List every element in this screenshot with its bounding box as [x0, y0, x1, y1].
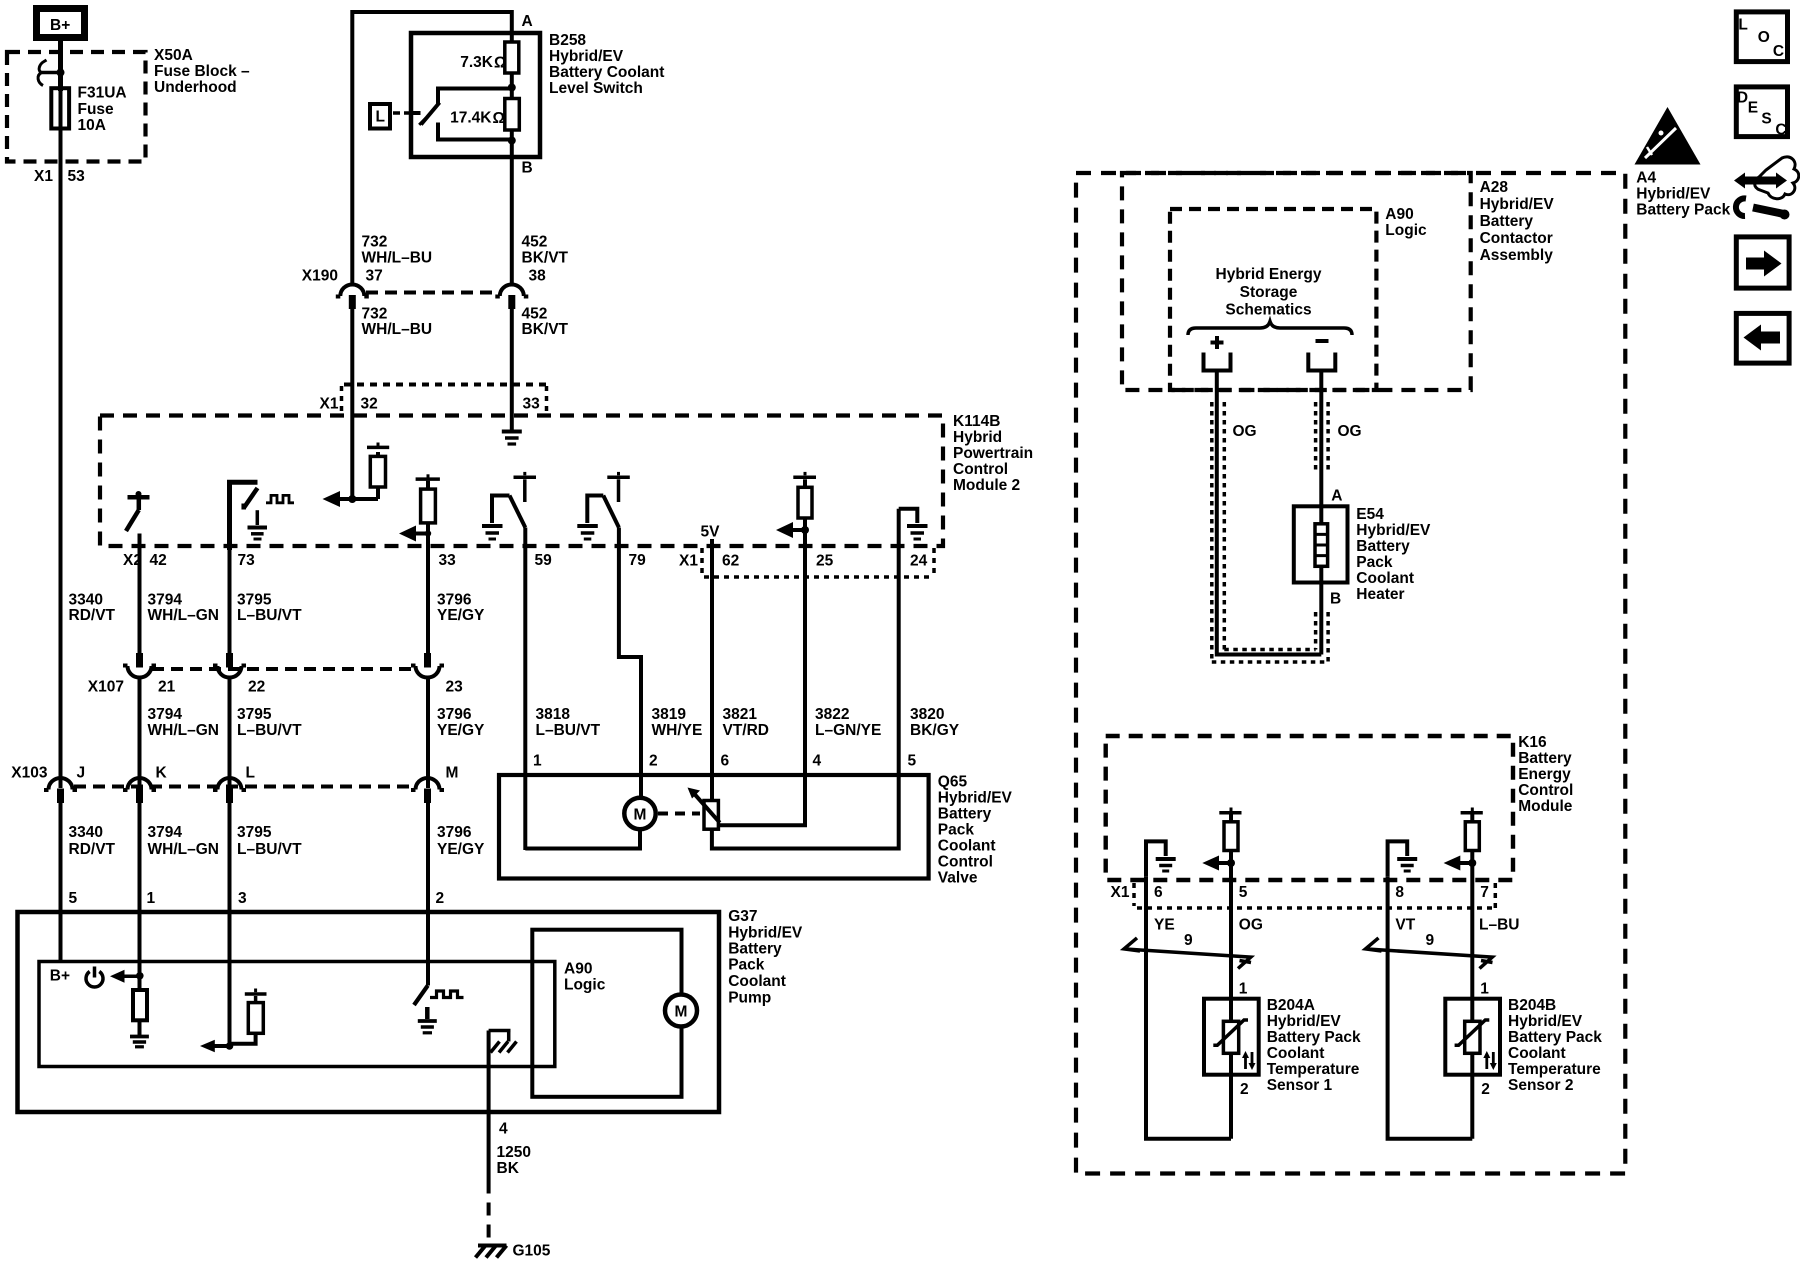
label X50A Fuse Block - Underhood — [154, 47, 250, 96]
svg-text:X1: X1 — [679, 553, 698, 570]
twisted pair symbol left with label 9 — [1124, 932, 1251, 969]
arrows up down sensor 2 — [1483, 1051, 1497, 1070]
dashed wire to G105 — [487, 1181, 491, 1242]
pin label 2 sensor 2 — [1481, 1081, 1490, 1098]
wire pin 33 to X107 pin 23 — [426, 534, 430, 654]
wire label 3821 VT/RD — [723, 706, 770, 739]
wire label 732 WH/L-BU below X190 — [362, 306, 433, 339]
wire K16 pin 6 YE to sensor 1 pin 2 — [1146, 877, 1231, 1139]
pull-up resistor at K16 pin 5 — [1219, 808, 1241, 864]
node B+ battery positive — [37, 9, 85, 38]
svg-text:RD/VT: RD/VT — [69, 841, 116, 858]
node L float input box — [370, 104, 390, 129]
label A28 Hybrid/EV Battery Contactor Assembly — [1480, 179, 1555, 264]
svg-text:Energy: Energy — [1518, 766, 1571, 783]
svg-text:Storage: Storage — [1240, 284, 1298, 301]
svg-text:7: 7 — [1480, 884, 1489, 901]
svg-text:17.4K: 17.4K — [450, 110, 492, 127]
svg-text:Underhood: Underhood — [154, 79, 237, 96]
svg-text:X50A: X50A — [154, 47, 193, 64]
connector X107 pin 22 — [213, 653, 246, 678]
svg-text:6: 6 — [1154, 884, 1163, 901]
svg-text:22: 22 — [248, 679, 265, 696]
svg-text:A90: A90 — [564, 961, 592, 978]
wire label 3796 YE/GY upper — [437, 592, 485, 625]
ground at pin 24 — [907, 526, 928, 539]
logic block A90 in G37 — [39, 962, 555, 1067]
svg-text:23: 23 — [446, 679, 464, 696]
svg-text:37: 37 — [366, 268, 383, 285]
svg-text:B258: B258 — [549, 32, 586, 49]
svg-text:WH/L–BU: WH/L–BU — [362, 321, 433, 338]
svg-text:Hybrid Energy: Hybrid Energy — [1216, 266, 1322, 283]
arrow left on pin 3 wire — [200, 1040, 233, 1053]
connector X103 pin J — [44, 778, 77, 803]
svg-text:24: 24 — [910, 553, 928, 570]
svg-text:Ω: Ω — [493, 110, 505, 127]
svg-text:3795: 3795 — [237, 824, 272, 841]
svg-text:21: 21 — [158, 679, 176, 696]
svg-text:5V: 5V — [701, 524, 721, 541]
connector X190 pin 38 — [495, 285, 528, 310]
svg-text:Level Switch: Level Switch — [549, 80, 643, 97]
svg-text:M: M — [675, 1004, 688, 1021]
svg-text:33: 33 — [523, 396, 541, 413]
ground at pin 73 driver — [248, 510, 268, 539]
label A90 Logic in G37 — [564, 961, 606, 994]
svg-text:Coolant: Coolant — [728, 973, 786, 990]
svg-text:42: 42 — [150, 552, 167, 569]
wire K16 pin 7 L-BU to sensor 2 pin 1 — [1470, 863, 1474, 1139]
svg-text:452: 452 — [522, 234, 548, 251]
wire label 3794 WH/L-GN lower — [148, 706, 219, 739]
svg-text:38: 38 — [529, 268, 547, 285]
motor loop in G37 — [532, 930, 681, 1097]
wire pin 59 to Q65 pin 1 — [523, 528, 527, 851]
svg-text:L: L — [1738, 17, 1747, 34]
svg-text:A90: A90 — [1385, 206, 1413, 223]
svg-text:3821: 3821 — [723, 706, 758, 723]
wire 3796 X103 to G37 pin 2 — [426, 802, 430, 986]
connector label X190 37 38 — [302, 268, 546, 285]
svg-text:Hybrid/EV: Hybrid/EV — [1508, 1013, 1583, 1030]
svg-text:L–BU/VT: L–BU/VT — [237, 722, 302, 739]
pull-up resistor on circuit 732 — [367, 443, 389, 500]
connector X107 pin 21 — [123, 653, 156, 678]
wire OG positive to heater B loop — [1217, 373, 1322, 655]
module K114B dashed box — [100, 416, 943, 547]
label E54 Hybrid/EV Battery Pack Coolant Heater — [1356, 506, 1431, 603]
svg-text:732: 732 — [362, 306, 388, 323]
connector X1 strip below K16 — [1134, 883, 1495, 908]
svg-text:2: 2 — [1240, 1081, 1249, 1098]
label B258 Hybrid/EV Battery Coolant Level Switch — [549, 32, 664, 97]
wire 3796 X107 to X103 — [426, 677, 430, 788]
svg-text:B: B — [522, 160, 533, 177]
wire 3795 X107 to X103 — [228, 677, 232, 788]
warning triangle A4 — [1635, 107, 1701, 165]
wire label 452 BK/VT above X190 — [522, 234, 569, 267]
wire label 3794 WH/L-GN upper — [148, 592, 219, 625]
contactor assembly A28 dashed box — [1122, 173, 1471, 390]
wire label OG left — [1233, 423, 1257, 440]
svg-text:X1: X1 — [1111, 884, 1130, 901]
svg-text:OG: OG — [1239, 917, 1263, 934]
wire label 452 BK/VT below X190 — [522, 306, 569, 339]
svg-text:9: 9 — [1184, 932, 1193, 949]
switch arm on pin 2 wire — [414, 986, 428, 1006]
fuse F31UA 10A — [51, 88, 69, 128]
power symbol — [86, 967, 103, 988]
heater element symbol — [1315, 524, 1328, 567]
wire Q65 pin 1 to motor — [525, 829, 640, 848]
svg-text:2: 2 — [1481, 1081, 1490, 1098]
wire label 1250 BK — [497, 1144, 531, 1177]
svg-text:L–BU/VT: L–BU/VT — [536, 722, 601, 739]
valve Q65 box — [499, 775, 929, 879]
svg-text:33: 33 — [439, 552, 457, 569]
svg-text:B204B: B204B — [1508, 997, 1556, 1014]
svg-text:A4: A4 — [1636, 170, 1656, 187]
wire label 3340 RD/VT upper — [69, 592, 116, 625]
label G105 — [513, 1243, 551, 1260]
svg-text:S: S — [1761, 110, 1771, 127]
svg-text:3818: 3818 — [536, 706, 571, 723]
wire label 3795 L-BU/VT upper — [237, 592, 302, 625]
svg-text:J: J — [77, 765, 86, 782]
connector label X103 J K L M — [11, 765, 458, 782]
svg-text:1250: 1250 — [497, 1144, 531, 1161]
thermistor symbol sensor 2 — [1455, 1020, 1490, 1053]
pin A label — [522, 13, 533, 30]
svg-text:VT: VT — [1395, 917, 1415, 934]
svg-text:Battery: Battery — [728, 941, 782, 958]
pin labels X1 6 5 8 7 — [1111, 884, 1489, 901]
switch arm B258 — [419, 103, 439, 125]
net label B+ inside A90 — [50, 968, 70, 985]
level switch B258 box — [411, 33, 540, 157]
svg-text:B+: B+ — [50, 17, 70, 34]
pull-up resistor at pin 25 — [793, 472, 816, 530]
svg-text:Hybrid/EV: Hybrid/EV — [1356, 522, 1431, 539]
ground on pin 1 wire — [130, 1037, 149, 1047]
icon box LOC — [1736, 12, 1787, 62]
svg-text:Schematics: Schematics — [1225, 302, 1311, 319]
svg-text:6: 6 — [721, 753, 730, 770]
svg-text:Module 2: Module 2 — [953, 477, 1020, 494]
pin label A — [1331, 488, 1342, 505]
svg-text:M: M — [446, 765, 459, 782]
wire label 3820 BK/GY — [910, 706, 960, 739]
wire pin 25 to Q65 pin 4 — [718, 530, 805, 825]
value label 17.4K ohm — [450, 110, 505, 128]
svg-text:3822: 3822 — [815, 706, 849, 723]
svg-text:B+: B+ — [50, 968, 70, 985]
svg-text:YE/GY: YE/GY — [437, 722, 485, 739]
ground contact on pin 2 wire — [418, 1007, 437, 1033]
svg-text:1: 1 — [1480, 981, 1489, 998]
svg-text:Pack: Pack — [1356, 554, 1393, 571]
wire 3340 X103 to G37 pin 5 — [59, 802, 63, 962]
svg-text:C: C — [1773, 43, 1784, 60]
svg-text:O: O — [1758, 29, 1770, 46]
svg-text:M: M — [634, 807, 647, 824]
pin labels 5 1 3 2 above G37 — [69, 890, 445, 907]
pin label 1 sensor 1 — [1239, 981, 1248, 998]
svg-text:Hybrid: Hybrid — [953, 429, 1002, 446]
svg-text:VT/RD: VT/RD — [723, 722, 770, 739]
arrow left at pin 33 — [399, 526, 431, 542]
pin label B — [1330, 591, 1341, 608]
svg-text:E54: E54 — [1356, 506, 1384, 523]
icon box arrow left — [1736, 313, 1789, 363]
svg-text:Hybrid/EV: Hybrid/EV — [1267, 1013, 1342, 1030]
svg-text:3795: 3795 — [237, 706, 272, 723]
connector X107 dashed line — [152, 667, 416, 671]
svg-text:Battery: Battery — [1518, 750, 1572, 767]
svg-text:K16: K16 — [1518, 734, 1547, 751]
ground link at pin 24 — [899, 509, 918, 523]
svg-text:Assembly: Assembly — [1480, 247, 1554, 264]
svg-text:OG: OG — [1233, 423, 1257, 440]
svg-text:A: A — [1331, 488, 1342, 505]
pin labels X1 32 33 — [320, 396, 541, 413]
PWM symbol at pin 73 — [266, 495, 294, 502]
arrows up down sensor 1 — [1242, 1051, 1256, 1070]
svg-text:Battery Pack: Battery Pack — [1267, 1029, 1361, 1046]
ground link at K16 pin 6 — [1146, 841, 1166, 876]
pull-up resistor on pin 3 wire — [230, 989, 267, 1044]
svg-text:WH/L–BU: WH/L–BU — [362, 250, 433, 267]
resistor on pin 1 wire — [133, 977, 147, 1035]
arrow left at circuit 732 — [323, 491, 379, 507]
svg-text:Temperature: Temperature — [1508, 1061, 1601, 1078]
wire inside B258 pin A to pin B — [510, 42, 514, 284]
arrow left at K16 pin 7 — [1444, 856, 1477, 871]
wire color labels YE OG VT L-BU — [1154, 917, 1519, 934]
svg-text:Pack: Pack — [938, 822, 975, 839]
svg-text:Battery: Battery — [1356, 538, 1410, 555]
svg-text:WH/L–GN: WH/L–GN — [148, 607, 219, 624]
svg-text:RD/VT: RD/VT — [69, 607, 116, 624]
pin B label — [522, 160, 533, 177]
svg-text:Ω: Ω — [494, 55, 506, 72]
pin labels 1 2 6 4 5 above Q65 — [533, 753, 917, 770]
value label 7.3K ohm — [460, 54, 506, 72]
wire label 3794 WH/L-GN bottom — [148, 824, 219, 858]
svg-text:WH/YE: WH/YE — [652, 722, 703, 739]
pin label X1 53 — [34, 168, 85, 185]
wire 452 X190 to K114B pin 33 ground — [510, 309, 514, 428]
pin labels X2 42 73 33 59 79 X1 62 25 24 — [123, 552, 928, 570]
ground link at K16 pin 8 — [1388, 841, 1408, 876]
label B204B Hybrid/EV Battery Pack Coolant Temperature Sensor 2 — [1508, 997, 1602, 1094]
resistor 7.3K — [505, 42, 519, 73]
wire B258 top feed — [352, 12, 512, 284]
svg-text:Contactor: Contactor — [1480, 230, 1553, 247]
connector X190 dashed line — [366, 291, 498, 295]
svg-text:Sensor 2: Sensor 2 — [1508, 1077, 1573, 1094]
svg-text:Module: Module — [1518, 798, 1573, 815]
svg-text:Hybrid/EV: Hybrid/EV — [549, 48, 624, 65]
svg-text:3794: 3794 — [148, 592, 183, 609]
ground at K16 pin 6 — [1156, 859, 1176, 871]
brace over battery terminals — [1188, 322, 1352, 336]
svg-text:Hybrid/EV: Hybrid/EV — [1480, 196, 1555, 213]
svg-text:3796: 3796 — [437, 706, 472, 723]
connector X103 dashed line — [74, 785, 414, 789]
svg-text:G105: G105 — [513, 1243, 551, 1260]
driver switch at pin 79 — [587, 472, 630, 528]
logic block A90 dashed box — [1170, 209, 1376, 390]
ground G105 chassis symbol — [476, 1246, 507, 1258]
junction at clip — [57, 69, 65, 77]
svg-text:L–BU/VT: L–BU/VT — [237, 607, 302, 624]
svg-text:3820: 3820 — [910, 706, 944, 723]
connector X190 pin 37 — [336, 285, 369, 310]
pin label 4 — [499, 1121, 508, 1138]
svg-text:BK/VT: BK/VT — [522, 321, 569, 338]
connector X103 pin L — [213, 778, 246, 803]
chassis ground link pin 4 — [489, 1031, 517, 1053]
twisted pair symbol right with label 9 — [1366, 932, 1493, 969]
svg-text:Coolant: Coolant — [938, 838, 996, 855]
svg-text:YE/GY: YE/GY — [437, 607, 485, 624]
label F31UA Fuse 10A — [78, 85, 127, 135]
svg-text:WH/L–GN: WH/L–GN — [148, 722, 219, 739]
pin label 2 sensor 1 — [1240, 1081, 1249, 1098]
wire label 3796 YE/GY lower — [437, 706, 485, 739]
wire K16 pin 8 VT to sensor 2 pin 2 — [1388, 877, 1473, 1139]
svg-text:Control: Control — [953, 461, 1008, 478]
wire switch lower contact to junction — [438, 123, 512, 140]
svg-text:1: 1 — [533, 753, 542, 770]
wire 3795 X103 to G37 pin 3 — [228, 802, 232, 1046]
svg-text:BK/GY: BK/GY — [910, 722, 960, 739]
driver symbol at pin 73 — [230, 482, 258, 550]
wire pin 4 circuit 1250 BK — [487, 1031, 491, 1181]
svg-text:Control: Control — [1518, 782, 1573, 799]
svg-text:E: E — [1748, 100, 1758, 117]
net label 5V — [701, 524, 721, 541]
junction on circuit 732 inside K114B — [348, 495, 356, 503]
svg-text:3796: 3796 — [437, 592, 472, 609]
svg-text:D: D — [1737, 90, 1748, 107]
svg-text:25: 25 — [816, 553, 834, 570]
svg-text:Temperature: Temperature — [1267, 1061, 1360, 1078]
wire label 3822 L-GN/YE — [815, 706, 881, 739]
svg-text:X107: X107 — [88, 679, 124, 696]
svg-text:G37: G37 — [728, 908, 757, 925]
ground at K16 pin 8 — [1397, 859, 1417, 871]
connector X103 pin M — [411, 778, 444, 803]
resistor 17.4K — [505, 99, 520, 131]
svg-text:Logic: Logic — [1385, 222, 1427, 239]
pin label 1 sensor 2 — [1480, 981, 1489, 998]
svg-text:Coolant: Coolant — [1508, 1045, 1566, 1062]
svg-text:62: 62 — [722, 553, 739, 570]
label A4 Hybrid/EV Battery Pack — [1636, 170, 1730, 219]
svg-text:Hybrid/EV: Hybrid/EV — [938, 790, 1013, 807]
thermistor symbol sensor 1 — [1213, 1020, 1248, 1053]
svg-text:L–BU/VT: L–BU/VT — [237, 841, 302, 858]
wire label 3340 RD/VT lower — [69, 824, 116, 858]
label Q65 Hybrid/EV Battery Pack Coolant Control Valve — [938, 774, 1013, 887]
driver switch at pin 59 — [492, 472, 536, 528]
svg-text:3795: 3795 — [237, 592, 272, 609]
ground inside K114B below pin 33 of X1 — [502, 428, 522, 444]
PWM symbol on pin 2 wire — [430, 991, 464, 998]
wire label 3818 L-BU/VT — [536, 706, 601, 739]
plus terminal label — [1211, 336, 1224, 349]
svg-text:BK/VT: BK/VT — [522, 250, 569, 267]
junction dot upper — [508, 84, 516, 92]
connector label X107 21 22 23 — [88, 679, 463, 696]
svg-text:YE: YE — [1154, 917, 1175, 934]
svg-text:Control: Control — [938, 854, 993, 871]
heater E54 box — [1294, 506, 1348, 582]
wire label 3796 YE/GY bottom — [437, 824, 485, 858]
battery pack A4 dashed box — [1076, 173, 1625, 1174]
icon box arrow right — [1736, 237, 1789, 288]
icon compare exchange arrows — [1734, 157, 1799, 199]
svg-text:3340: 3340 — [69, 824, 103, 841]
svg-text:C: C — [1775, 121, 1786, 138]
svg-text:L–BU: L–BU — [1479, 917, 1519, 934]
wire label OG right — [1338, 423, 1362, 440]
svg-text:8: 8 — [1395, 884, 1404, 901]
svg-text:Coolant: Coolant — [1267, 1045, 1325, 1062]
module K16 dashed box — [1106, 736, 1513, 880]
wire B+ feed to fuse — [58, 41, 63, 91]
wire label 3795 L-BU/VT bottom — [237, 824, 302, 858]
label Hybrid Energy Storage Schematics — [1216, 266, 1322, 319]
dashed float link — [393, 111, 421, 115]
wire pin 42 to X107 pin 21 — [138, 534, 142, 654]
svg-text:2: 2 — [436, 890, 445, 907]
label G37 Hybrid/EV Battery Pack Coolant Pump — [728, 908, 803, 1006]
svg-text:32: 32 — [361, 396, 378, 413]
potentiometer in Q65 — [688, 788, 720, 830]
svg-text:X190: X190 — [302, 268, 338, 285]
svg-text:YE/GY: YE/GY — [437, 841, 485, 858]
fuse block X50A dashed box — [7, 52, 146, 162]
svg-text:5: 5 — [1239, 884, 1248, 901]
junction dot lower — [508, 137, 516, 145]
svg-text:Q65: Q65 — [938, 774, 968, 791]
svg-text:Fuse: Fuse — [78, 101, 115, 118]
svg-text:B: B — [1330, 591, 1341, 608]
icon box DESC — [1736, 87, 1787, 138]
label K114B Hybrid Powertrain Control Module 2 — [953, 413, 1033, 494]
wire pin 79 to Q65 pin 2 with jog — [619, 528, 641, 799]
label A90 Logic — [1385, 206, 1427, 239]
svg-text:452: 452 — [522, 306, 548, 323]
svg-text:Valve: Valve — [938, 870, 978, 887]
svg-text:79: 79 — [629, 552, 647, 569]
svg-text:OG: OG — [1338, 423, 1362, 440]
svg-text:Hybrid/EV: Hybrid/EV — [1636, 186, 1711, 203]
temperature sensor B204B box — [1445, 999, 1500, 1075]
svg-text:Powertrain: Powertrain — [953, 445, 1033, 462]
svg-text:WH/L–GN: WH/L–GN — [148, 841, 219, 858]
wire fuse to X103 (circuit 3340) — [59, 91, 63, 788]
svg-text:Sensor 1: Sensor 1 — [1267, 1077, 1333, 1094]
svg-text:X2: X2 — [123, 552, 142, 569]
svg-text:L–GN/YE: L–GN/YE — [815, 722, 881, 739]
motor M in Q65 — [624, 798, 655, 829]
svg-text:3340: 3340 — [69, 592, 103, 609]
